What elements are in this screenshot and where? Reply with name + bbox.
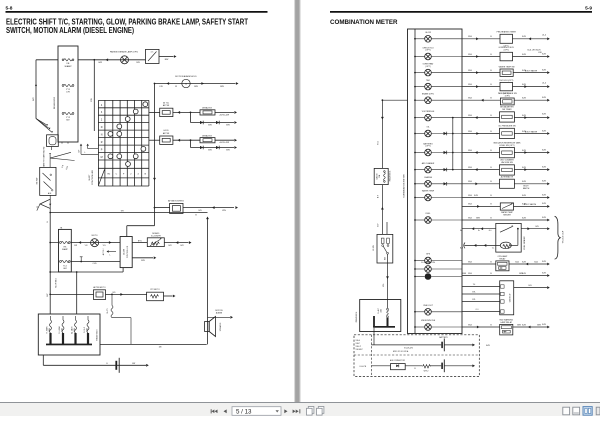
svg-text:W712: W712 <box>424 371 429 373</box>
svg-text:RELAY BOX: RELAY BOX <box>96 329 99 341</box>
svg-text:BODY EARTH: BODY EARTH <box>525 130 538 133</box>
svg-text:D: D <box>101 126 103 129</box>
svg-text:OIL: OIL <box>426 127 429 129</box>
svg-text:BATTERY: BATTERY <box>439 336 448 339</box>
svg-text:COMBINATION METER: COMBINATION METER <box>403 174 406 198</box>
svg-text:VS-WLP: VS-WLP <box>356 349 364 351</box>
svg-text:UL-0: UL-0 <box>542 35 546 37</box>
svg-text:AFT3N MOTO: AFT3N MOTO <box>93 286 106 289</box>
svg-text:B-W: B-W <box>474 195 478 197</box>
svg-text:L/R: L/R <box>66 92 70 94</box>
svg-text:CONTROLLER: CONTROLLER <box>127 245 129 258</box>
svg-text:BODY EARTH: BODY EARTH <box>525 70 538 73</box>
svg-text:5-8: 5-8 <box>6 5 13 11</box>
svg-text:B-W: B-W <box>522 181 526 183</box>
svg-text:KE SW: KE SW <box>37 178 39 185</box>
svg-text:VS-LP: VS-LP <box>356 346 362 348</box>
svg-text:B-W: B-W <box>522 54 526 56</box>
svg-text:B-W: B-W <box>522 36 526 38</box>
svg-text:N: N <box>101 134 103 137</box>
svg-text:(OPT): (OPT) <box>425 66 431 68</box>
svg-text:FUEL SENDER: FUEL SENDER <box>524 236 526 250</box>
svg-text:AFT3N: AFT3N <box>163 104 170 107</box>
svg-text:VS-GL E GLP: VS-GL E GLP <box>563 230 565 243</box>
svg-text:LEVEL SW (OPT): LEVEL SW (OPT) <box>499 145 514 147</box>
svg-text:A/B CONNECTOR: A/B CONNECTOR <box>390 359 406 362</box>
svg-text:32: 32 <box>37 206 39 208</box>
svg-text:C/45: C/45 <box>93 263 97 265</box>
svg-text:B-W: B-W <box>542 324 546 326</box>
svg-text:B-W: B-W <box>522 150 526 152</box>
svg-text:L: L <box>110 255 111 257</box>
svg-text:AFT3N: AFT3N <box>163 132 170 135</box>
svg-text:B7L: B7L <box>472 299 475 301</box>
svg-text:B/W: B/W <box>226 150 230 152</box>
svg-text:5-9: 5-9 <box>585 5 592 11</box>
svg-text:A.M: A.M <box>48 192 52 195</box>
svg-text:B/W: B/W <box>517 324 521 326</box>
svg-text:B-W: B-W <box>522 131 526 133</box>
svg-text:(OPT): (OPT) <box>504 45 509 47</box>
svg-text:B-W: B-W <box>522 261 526 263</box>
svg-text:B-W: B-W <box>542 272 546 274</box>
svg-text:COMBINATION METER: COMBINATION METER <box>330 19 398 26</box>
svg-text:THC ECU (OPT): THC ECU (OPT) <box>499 80 513 82</box>
svg-text:ILLUMI/NATION: ILLUMI/NATION <box>421 261 435 264</box>
svg-text:OIL PRESSURE SW: OIL PRESSURE SW <box>498 126 516 128</box>
svg-text:SAFETY STARTING SW: SAFETY STARTING SW <box>42 146 45 167</box>
svg-text:EARTH: EARTH <box>523 187 530 190</box>
svg-text:RELAY BOX: RELAY BOX <box>53 96 56 109</box>
svg-text:GAUGE: GAUGE <box>376 172 379 179</box>
svg-text:DEKALTEX: DEKALTEX <box>202 134 212 137</box>
svg-text:VACUUM SW: VACUUM SW <box>501 161 513 164</box>
svg-text:MOTO: MOTO <box>92 235 98 237</box>
svg-text:30AMP: 30AMP <box>64 65 72 68</box>
svg-text:B-W: B-W <box>542 53 546 55</box>
svg-text:B/Y: B/Y <box>33 97 35 101</box>
svg-text:RELAY BOX: RELAY BOX <box>355 311 358 322</box>
svg-text:SENDER: SENDER <box>503 215 511 217</box>
svg-text:B/W: B/W <box>537 324 541 326</box>
svg-text:B/9: B/9 <box>113 292 116 294</box>
svg-text:R: R <box>101 141 103 144</box>
svg-text:B/W: B/W <box>208 150 212 152</box>
svg-text:GLOW: GLOW <box>425 32 431 34</box>
svg-text:SHIFT: SHIFT <box>89 174 91 181</box>
svg-text:ALARM: ALARM <box>216 312 223 315</box>
svg-text:ONE KOOT: ONE KOOT <box>423 305 434 307</box>
svg-text:VOLT/BRIDGE: VOLT/BRIDGE <box>422 111 435 113</box>
svg-text:G/W: G/W <box>98 62 102 64</box>
svg-text:(OPT): (OPT) <box>425 146 431 148</box>
svg-text:66 T2L: 66 T2L <box>163 102 170 104</box>
svg-text:IG SW: IG SW <box>373 245 375 251</box>
svg-text:B7L: B7L <box>472 291 475 293</box>
svg-text:W: W <box>175 86 177 88</box>
svg-text:(OPT): (OPT) <box>425 50 431 52</box>
svg-text:DEKALTEX: DEKALTEX <box>202 107 212 110</box>
svg-text:GB2: GB2 <box>63 268 67 270</box>
svg-text:B-W: B-W <box>542 166 546 168</box>
svg-text:PARKING BRAKE LAMP (OPT): PARKING BRAKE LAMP (OPT) <box>110 51 138 54</box>
svg-text:B-W: B-W <box>522 115 526 117</box>
svg-text:M/VO 3/1 IO-12I IA: M/VO 3/1 IO-12I IA <box>393 350 409 353</box>
svg-text:B/W: B/W <box>165 59 169 61</box>
svg-text:(OPT): (OPT) <box>505 95 511 97</box>
svg-text:AFT3N ROGHTE2: AFT3N ROGHTE2 <box>168 200 184 203</box>
svg-text:UL-0: UL-0 <box>542 82 546 84</box>
svg-text:+GJR3+J2W: +GJR3+J2W <box>219 114 230 116</box>
svg-text:B-W: B-W <box>522 70 526 72</box>
svg-text:B-W: B-W <box>542 203 546 205</box>
svg-text:T-4: T-4 <box>473 284 476 286</box>
svg-text:GAS ECU: GAS ECU <box>509 293 512 302</box>
svg-text:(OPT): (OPT) <box>504 50 510 52</box>
svg-text:SLOP BK/2: SLOP BK/2 <box>56 278 58 288</box>
svg-text:SPEAKER: SPEAKER <box>219 322 222 331</box>
svg-text:UNKNOWN SVE: UNKNOWN SVE <box>421 320 436 322</box>
svg-text:MOTION ALARM HOLD: MOTION ALARM HOLD <box>175 75 197 78</box>
svg-text:UL-LPE: UL-LPE <box>360 366 367 368</box>
svg-text:B-W: B-W <box>522 273 526 275</box>
svg-text:ALT M J: ALT M J <box>102 249 105 256</box>
svg-text:CONTROLLER: CONTROLLER <box>92 170 94 185</box>
svg-text:B-W: B-W <box>542 217 546 219</box>
svg-text:B/Y5: B/Y5 <box>138 240 142 242</box>
svg-text:T/BC: T/BC <box>426 80 431 82</box>
svg-text:T-L: T-L <box>492 248 495 250</box>
svg-text:1/W: 1/W <box>132 363 136 365</box>
svg-text:CHARGE: CHARGE <box>424 176 433 179</box>
svg-text:GLOW: GLOW <box>123 249 125 255</box>
svg-text:3T2 MOTO: 3T2 MOTO <box>150 289 160 291</box>
svg-text:B-W: B-W <box>522 167 526 169</box>
svg-text:PRE-HEATING TIMER: PRE-HEATING TIMER <box>497 31 517 34</box>
svg-text:W-L: W-L <box>383 283 385 286</box>
svg-text:VS-P: VS-P <box>356 343 361 345</box>
svg-text:B-W: B-W <box>542 261 546 263</box>
svg-text:L/W: L/W <box>159 86 163 88</box>
svg-text:B-W: B-W <box>542 69 546 71</box>
svg-text:ALTERNATOR: ALTERNATOR <box>501 176 514 179</box>
svg-text:30AMP: 30AMP <box>62 248 69 251</box>
svg-text:RELAY: RELAY <box>499 257 506 260</box>
svg-text:VS-G: VS-G <box>356 340 361 342</box>
svg-text:64.20: 64.20 <box>163 130 169 132</box>
svg-text:B-W: B-W <box>522 195 526 197</box>
svg-text:B/W: B/W <box>208 125 212 127</box>
svg-text:B/W: B/W <box>226 125 230 127</box>
svg-text:B-W: B-W <box>522 84 526 86</box>
svg-text:B-W: B-W <box>522 324 526 326</box>
svg-text:B-W: B-W <box>542 194 546 196</box>
svg-text:B/W: B/W <box>141 260 145 262</box>
svg-text:RL/P1: RL/P1 <box>107 309 109 314</box>
svg-text:1/W: 1/W <box>74 245 77 247</box>
svg-text:B-W: B-W <box>542 181 546 183</box>
svg-text:B-W: B-W <box>542 149 546 151</box>
svg-text:(OPT): (OPT) <box>504 93 509 95</box>
svg-text:AIR CLEANER: AIR CLEANER <box>422 162 435 165</box>
svg-text:B-W: B-W <box>542 113 546 115</box>
svg-text:B/W: B/W <box>194 86 198 88</box>
svg-text:M: M <box>101 156 103 159</box>
svg-text:R-G: R-G <box>378 141 380 145</box>
svg-text:MS TIMER: MS TIMER <box>502 109 512 111</box>
svg-text:B-W: B-W <box>522 98 526 100</box>
svg-text:B/W: B/W <box>476 217 480 219</box>
svg-text:5 / 13: 5 / 13 <box>236 408 252 415</box>
svg-text:WATER TEMP SW: WATER TEMP SW <box>499 65 515 68</box>
svg-text:B-W: B-W <box>522 217 526 219</box>
svg-text:B-W: B-W <box>542 97 546 99</box>
svg-text:B/W: B/W <box>220 86 224 88</box>
svg-text:FL ALT: FL ALT <box>377 307 380 313</box>
svg-text:+GJR3+J2W: +GJR3+J2W <box>219 142 230 144</box>
svg-text:G-L: G-L <box>489 230 492 232</box>
svg-text:B-W: B-W <box>522 204 526 206</box>
svg-text:LAMP RELAY: LAMP RELAY <box>500 321 512 324</box>
svg-text:FUEL: FUEL <box>426 213 431 215</box>
svg-text:IO-I/2I-aH2: IO-I/2I-aH2 <box>404 347 413 349</box>
svg-text:BRAKE (OPT): BRAKE (OPT) <box>422 92 434 95</box>
svg-text:RELAY BOX: RELAY BOX <box>389 170 392 181</box>
svg-text:G.L/LIEUPH: G.L/LIEUPH <box>151 236 162 238</box>
svg-text:WATER TEMP: WATER TEMP <box>422 190 435 193</box>
svg-text:B-W: B-W <box>542 130 546 132</box>
svg-text:O-1: O-1 <box>476 309 479 311</box>
svg-text:SWITCH, MOTION ALARM (DIESEL E: SWITCH, MOTION ALARM (DIESEL ENGINE) <box>6 26 134 35</box>
